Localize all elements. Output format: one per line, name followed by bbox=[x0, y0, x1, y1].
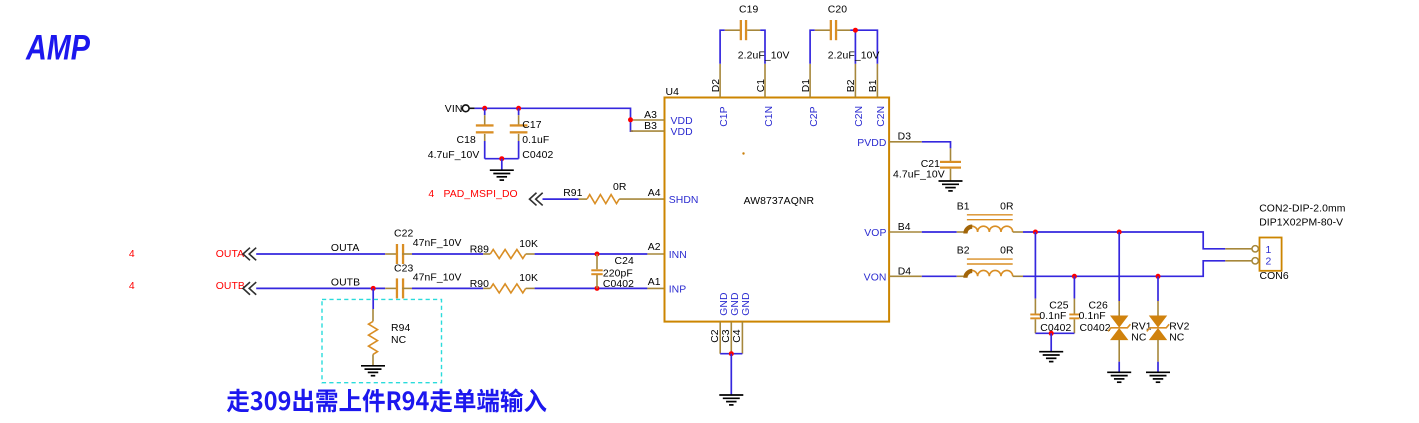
junction VOP-RV1 bbox=[1117, 230, 1122, 235]
capacitor C25 bbox=[1030, 314, 1040, 320]
junction VDD split bbox=[628, 117, 633, 122]
junction OUTB-R94 bbox=[371, 286, 376, 291]
capacitor C19 bbox=[740, 20, 748, 40]
svg-text:0.1uF: 0.1uF bbox=[522, 135, 549, 146]
capacitor C23 bbox=[396, 278, 404, 298]
lead C25 bottom bbox=[1034, 319, 1036, 333]
svg-text:OUTB: OUTB bbox=[216, 281, 245, 292]
junction INP-C24 bbox=[595, 286, 600, 291]
lead B2 right bbox=[1013, 275, 1023, 277]
chevron OUTA bbox=[243, 248, 256, 260]
lead R94 bottom bbox=[372, 354, 374, 365]
junction C25C26 ground bbox=[1049, 331, 1054, 336]
TVS diode RV2 bbox=[1150, 316, 1166, 340]
ground under RV2 bbox=[1146, 372, 1170, 382]
lead C21 bottom bbox=[950, 169, 952, 181]
lead R91 left bbox=[579, 198, 588, 200]
wire C20 right bbox=[850, 30, 877, 64]
wire GND stem bbox=[730, 354, 732, 395]
connector CON6 pin1 circle bbox=[1252, 246, 1258, 252]
svg-text:0R: 0R bbox=[1000, 246, 1014, 257]
lead C22 right bbox=[402, 253, 412, 255]
lead C20 right bbox=[837, 29, 850, 31]
lead C25 top bbox=[1034, 299, 1036, 314]
resistor R91 bbox=[587, 195, 619, 204]
pin D2 stub bbox=[719, 64, 721, 98]
svg-text:PAD_MSPI_DO: PAD_MSPI_DO bbox=[444, 189, 518, 200]
lead C18 bottom bbox=[484, 134, 486, 141]
svg-text:A2: A2 bbox=[648, 242, 661, 253]
svg-text:C1P: C1P bbox=[719, 106, 730, 127]
svg-text:47nF_10V: 47nF_10V bbox=[413, 273, 462, 284]
ground under C17 C18 bbox=[490, 170, 514, 180]
wire RV1 gnd stem bbox=[1118, 362, 1120, 372]
svg-text:SHDN: SHDN bbox=[669, 195, 699, 206]
svg-text:B1: B1 bbox=[957, 201, 970, 212]
svg-text:C0402: C0402 bbox=[1080, 323, 1111, 334]
svg-text:C2N: C2N bbox=[854, 106, 865, 127]
lead RV1 bottom bbox=[1118, 340, 1120, 362]
lead C17 top bbox=[518, 115, 520, 124]
ground under C25 C26 bbox=[1039, 352, 1063, 362]
svg-text:4: 4 bbox=[129, 249, 135, 260]
wire VOP to B1 bbox=[922, 231, 957, 233]
pin B4 stub bbox=[889, 231, 922, 233]
pin D3 stub bbox=[889, 141, 922, 143]
port circle VIN bbox=[462, 105, 469, 112]
pin C3 stub bbox=[730, 322, 732, 354]
svg-text:D3: D3 bbox=[898, 131, 912, 142]
svg-text:C20: C20 bbox=[828, 5, 847, 16]
lead C18 top bbox=[484, 115, 486, 124]
svg-text:C0402: C0402 bbox=[522, 150, 553, 161]
svg-text:C3: C3 bbox=[721, 329, 732, 343]
svg-text:C22: C22 bbox=[394, 228, 413, 239]
wire C20 left bbox=[810, 30, 815, 64]
svg-text:C0402: C0402 bbox=[603, 279, 634, 290]
svg-text:INP: INP bbox=[669, 285, 687, 296]
svg-text:R90: R90 bbox=[470, 279, 489, 290]
capacitor C17 bbox=[510, 124, 528, 133]
svg-text:RV1: RV1 bbox=[1131, 321, 1151, 332]
wire VOP out bbox=[1023, 232, 1225, 249]
svg-text:C23: C23 bbox=[394, 264, 413, 275]
pin B1 stub bbox=[876, 64, 878, 98]
svg-text:C4: C4 bbox=[732, 329, 743, 343]
wire C18 bottom bbox=[484, 141, 486, 159]
lead RV2 top bbox=[1157, 301, 1159, 317]
lead C26 bottom bbox=[1073, 319, 1075, 333]
svg-text:CON2-DIP-2.0mm: CON2-DIP-2.0mm bbox=[1259, 203, 1345, 214]
lead C26 top bbox=[1073, 299, 1075, 314]
capacitor C24 bbox=[591, 269, 602, 275]
lead C23 left bbox=[385, 287, 396, 289]
pin D1 stub bbox=[809, 64, 811, 98]
wire C19 right bbox=[760, 30, 765, 64]
svg-text:C24: C24 bbox=[615, 256, 634, 267]
svg-text:1: 1 bbox=[1266, 245, 1272, 256]
wire C17C18 to ground bbox=[485, 158, 519, 160]
svg-text:10K: 10K bbox=[519, 239, 538, 250]
svg-text:C2P: C2P bbox=[809, 106, 820, 127]
ground under U4 bbox=[719, 395, 743, 405]
svg-text:AMP: AMP bbox=[25, 29, 90, 68]
wire OUTB to R94 bbox=[372, 288, 374, 309]
svg-text:B3: B3 bbox=[644, 121, 657, 132]
lead R90 right bbox=[526, 287, 535, 289]
capacitor C20 bbox=[830, 20, 838, 40]
svg-text:GND: GND bbox=[741, 292, 752, 315]
wire C25 drop bbox=[1034, 232, 1036, 299]
wire C26 drop bbox=[1073, 276, 1075, 298]
svg-text:C18: C18 bbox=[457, 135, 476, 146]
junction VIN-C18 bbox=[482, 106, 487, 111]
svg-text:VOP: VOP bbox=[864, 228, 886, 239]
junction VIN-C17 bbox=[516, 106, 521, 111]
lead RV1 top bbox=[1118, 301, 1120, 317]
lead C17 bottom bbox=[518, 134, 520, 141]
resistor R94 bbox=[369, 321, 378, 354]
resistor R89 bbox=[490, 250, 525, 259]
svg-text:VON: VON bbox=[864, 272, 887, 283]
svg-text:0.1nF: 0.1nF bbox=[1039, 311, 1066, 322]
svg-text:RV2: RV2 bbox=[1169, 321, 1189, 332]
svg-text:220pF: 220pF bbox=[603, 268, 633, 279]
svg-text:C1N: C1N bbox=[764, 106, 775, 127]
svg-text:0R: 0R bbox=[613, 182, 627, 193]
svg-text:VIN: VIN bbox=[445, 104, 463, 115]
svg-text:B2: B2 bbox=[957, 246, 970, 257]
wire OUTA bbox=[256, 253, 385, 255]
wire VON out bbox=[1023, 261, 1225, 277]
pin D4 stub bbox=[889, 275, 922, 277]
lead R89 right bbox=[526, 253, 535, 255]
lead CON6 pin2 bbox=[1225, 260, 1252, 262]
wire C25 C26 join bbox=[1035, 332, 1074, 334]
TVS diode RV1 bbox=[1111, 316, 1127, 340]
svg-text:NC: NC bbox=[1169, 332, 1185, 343]
svg-text:OUTB: OUTB bbox=[331, 277, 360, 288]
lead RV2 bottom bbox=[1157, 340, 1159, 362]
capacitor C18 bbox=[476, 124, 494, 133]
junction C20-B1B2 bbox=[853, 28, 858, 33]
lead C24 bottom bbox=[596, 275, 598, 288]
svg-text:A1: A1 bbox=[648, 277, 661, 288]
svg-text:C17: C17 bbox=[522, 120, 541, 131]
lead CON6 pin1 bbox=[1225, 248, 1252, 250]
junction C17C18 ground bbox=[499, 156, 504, 161]
op-amp U4 AW8737AQNR body bbox=[665, 98, 890, 322]
wire PVDD bbox=[922, 142, 951, 149]
wire ground stem bbox=[501, 159, 503, 170]
svg-text:GND: GND bbox=[730, 292, 741, 315]
svg-text:AW8737AQNR: AW8737AQNR bbox=[744, 196, 815, 207]
svg-text:C2N: C2N bbox=[876, 106, 887, 127]
wire C19 left bbox=[720, 30, 725, 64]
svg-text:2: 2 bbox=[1266, 257, 1272, 268]
chevron OUTB bbox=[243, 283, 256, 295]
svg-text:R91: R91 bbox=[563, 188, 582, 199]
lead C21 top bbox=[950, 148, 952, 161]
svg-text:0.1nF: 0.1nF bbox=[1079, 311, 1106, 322]
svg-text:NC: NC bbox=[1131, 332, 1147, 343]
wire C17 top lead bbox=[518, 108, 520, 115]
svg-text:U4: U4 bbox=[666, 87, 680, 98]
svg-text:B4: B4 bbox=[898, 222, 911, 233]
ground under RV1 bbox=[1107, 372, 1131, 382]
svg-text:2.2uF_10V: 2.2uF_10V bbox=[828, 51, 880, 62]
pin A3 stub bbox=[633, 119, 665, 121]
junction GND pins bbox=[729, 351, 734, 356]
wire R90 to INP bbox=[535, 287, 648, 289]
svg-text:A3: A3 bbox=[644, 110, 657, 121]
dashed NC box bbox=[322, 299, 442, 382]
wire VON to B2 bbox=[922, 275, 957, 277]
pin C2 stub bbox=[719, 322, 721, 354]
capacitor C26 bbox=[1069, 314, 1079, 320]
junction VON-RV2 bbox=[1156, 274, 1161, 279]
svg-text:GND: GND bbox=[719, 292, 730, 315]
wire GND pins join bbox=[720, 353, 742, 355]
lead R89 left bbox=[483, 253, 490, 255]
pin A1 stub bbox=[647, 287, 664, 289]
lead C23 right bbox=[402, 287, 412, 289]
svg-text:NC: NC bbox=[391, 335, 407, 346]
svg-text:C1: C1 bbox=[756, 79, 767, 93]
svg-text:4.7uF_10V: 4.7uF_10V bbox=[428, 150, 480, 161]
svg-text:R94: R94 bbox=[391, 323, 410, 334]
svg-text:C19: C19 bbox=[739, 5, 758, 16]
svg-text:47nF_10V: 47nF_10V bbox=[413, 238, 462, 249]
lead C22 left bbox=[385, 253, 396, 255]
svg-text:D4: D4 bbox=[898, 266, 912, 277]
connector CON6 pin2 circle bbox=[1252, 258, 1258, 264]
junction VON-C26 bbox=[1072, 274, 1077, 279]
svg-text:DIP1X02PM-80-V: DIP1X02PM-80-V bbox=[1259, 218, 1343, 229]
wire VIN to VDD pins bbox=[475, 108, 633, 131]
lead R90 left bbox=[483, 287, 490, 289]
svg-text:A4: A4 bbox=[648, 188, 661, 199]
svg-text:B1: B1 bbox=[868, 79, 879, 92]
wire C18 top lead bbox=[484, 108, 486, 115]
svg-text:C26: C26 bbox=[1089, 301, 1108, 312]
pin B2 stub bbox=[854, 64, 856, 98]
svg-text:D2: D2 bbox=[711, 79, 722, 93]
svg-text:10K: 10K bbox=[519, 273, 538, 284]
lead C19 left bbox=[725, 29, 740, 31]
svg-text:4.7uF_10V: 4.7uF_10V bbox=[893, 170, 945, 181]
svg-text:B2: B2 bbox=[846, 79, 857, 92]
svg-text:C21: C21 bbox=[921, 159, 940, 170]
lead B1 left bbox=[957, 231, 966, 233]
wire B2 drop bbox=[854, 30, 856, 64]
wire RV2 gnd stem bbox=[1157, 362, 1159, 372]
svg-text:INN: INN bbox=[669, 250, 687, 261]
lead C20 left bbox=[815, 29, 830, 31]
wire C22 to R89 bbox=[412, 253, 483, 255]
capacitor C21 bbox=[940, 161, 961, 169]
svg-text:C0402: C0402 bbox=[1040, 323, 1071, 334]
lead C19 right bbox=[747, 29, 760, 31]
inductor B2 bbox=[966, 270, 1013, 276]
wire C25C26 gnd stem bbox=[1050, 333, 1052, 351]
wire OUTB bbox=[256, 287, 385, 289]
lead B2 left bbox=[957, 275, 966, 277]
lead C24 top bbox=[596, 254, 598, 269]
svg-text:PVDD: PVDD bbox=[857, 138, 886, 149]
inductor B1 bbox=[966, 226, 1013, 232]
svg-text:R89: R89 bbox=[470, 245, 489, 256]
svg-text:4: 4 bbox=[129, 281, 135, 292]
svg-text:C2: C2 bbox=[710, 329, 721, 343]
svg-text:OUTA: OUTA bbox=[331, 243, 360, 254]
svg-text:OUTA: OUTA bbox=[216, 249, 245, 260]
lead R94 top bbox=[372, 309, 374, 321]
pin C1 stub bbox=[764, 64, 766, 98]
svg-text:D1: D1 bbox=[801, 79, 812, 93]
wire RV2 drop bbox=[1157, 276, 1159, 301]
svg-text:4: 4 bbox=[428, 189, 434, 200]
junction INN-C24 bbox=[595, 252, 600, 257]
svg-text:VDD: VDD bbox=[671, 116, 693, 127]
pin C4 stub bbox=[741, 322, 743, 354]
lead B1 right bbox=[1013, 231, 1023, 233]
svg-text:C25: C25 bbox=[1049, 301, 1068, 312]
stray dot artifact bbox=[742, 152, 744, 154]
wire SHDN bbox=[543, 198, 579, 200]
svg-text:CON6: CON6 bbox=[1260, 271, 1289, 282]
wire C23 to R90 bbox=[412, 287, 483, 289]
pin A2 stub bbox=[647, 253, 664, 255]
wire RV1 drop bbox=[1118, 232, 1120, 301]
svg-text:2.2uF_10V: 2.2uF_10V bbox=[738, 51, 790, 62]
svg-text:0R: 0R bbox=[1000, 201, 1014, 212]
junction VOP-C25 bbox=[1033, 230, 1038, 235]
capacitor C22 bbox=[396, 244, 404, 264]
resistor R90 bbox=[490, 284, 525, 293]
wire C17 bottom bbox=[518, 141, 520, 159]
wire R89 to INN bbox=[535, 253, 648, 255]
connector CON6 body bbox=[1260, 238, 1282, 271]
chevron PAD_MSPI_DO bbox=[530, 193, 543, 205]
pin A4 stub bbox=[619, 198, 664, 200]
note text Chinese bbox=[227, 389, 547, 413]
pin B3 stub bbox=[631, 130, 665, 132]
ground under C21 bbox=[939, 181, 963, 191]
ground under R94 bbox=[361, 366, 385, 376]
svg-text:VDD: VDD bbox=[671, 127, 693, 138]
